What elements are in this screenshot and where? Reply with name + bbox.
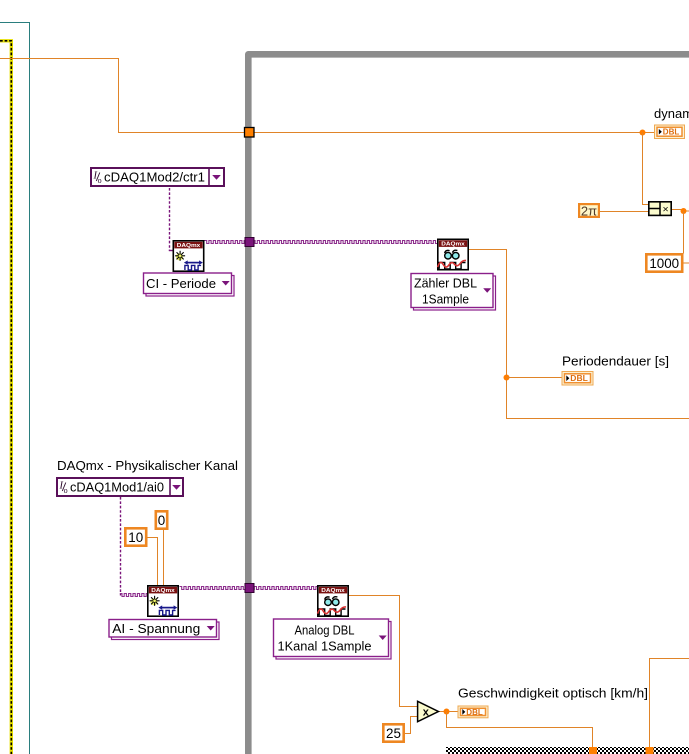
svg-text:cDAQ1Mod1/ai0: cDAQ1Mod1/ai0 — [70, 480, 164, 495]
tunnel (purple) on gray loop border, top — [245, 238, 254, 247]
wire: DAQmx channel name ai0 to AI-Spannung VI (dashed) — [120, 497, 148, 597]
VI icon: DAQmx Read Analog DBL 1Kanal 1Sample — [318, 586, 349, 616]
wire: branch down to 1000 constant corner — [683, 211, 685, 254]
junction node at Periodendauer branch — [504, 375, 510, 381]
VI icon: DAQmx Create Channel CI-Periode — [173, 241, 203, 271]
junction node at dynamisch indicator branch — [640, 130, 646, 136]
svg-text:×: × — [663, 203, 669, 215]
wire: constant 10 to AI-Spannung VI — [148, 538, 158, 586]
wire: 25 constant to multiply input — [405, 717, 417, 734]
constant: 0 — [156, 511, 167, 528]
wire: from right edge down to bottom structure tunnel — [650, 659, 689, 748]
wire: branch down to bottom structure tunnel — [447, 712, 593, 748]
constant: DAQmx channel cDAQ1Mod1/ai0 — [57, 478, 183, 496]
svg-text:cDAQ1Mod2/ctr1: cDAQ1Mod2/ctr1 — [104, 170, 205, 185]
svg-text:25: 25 — [386, 726, 401, 741]
function: multiply (compact grown) — [649, 202, 671, 216]
svg-text:10: 10 — [128, 530, 143, 545]
main loop border (gray) — [248, 54, 689, 754]
VI icon: DAQmx Read Zaehler DBL 1Sample — [438, 239, 469, 269]
wire: DAQmx channel name ctr1 to CI-Periode VI (dashed) — [169, 188, 173, 251]
junction node at multiply output — [681, 208, 687, 214]
svg-text:1Sample: 1Sample — [422, 291, 469, 306]
indicator terminal: dynamisch (DBL) — [655, 125, 685, 139]
svg-text:DBL: DBL — [570, 374, 588, 383]
function: multiply (triangle) — [418, 701, 439, 721]
wire: Zaehler DBL read output — [468, 250, 689, 419]
sequence structure border (yellow/black dashed) — [0, 41, 11, 754]
tunnel (orange) on gray loop border — [245, 128, 255, 138]
bottom structure border (checkered) — [446, 747, 689, 754]
svg-text:AI - Spannung: AI - Spannung — [112, 621, 200, 636]
wire: 2pi constant to multiply input — [600, 211, 650, 213]
wire: DAQmx task CI-Periode to Zaehler read (zigzag) — [205, 241, 438, 244]
svg-text:DBL: DBL — [466, 708, 483, 717]
label: Periodendauer [s] — [562, 354, 669, 369]
svg-text:DAQmx: DAQmx — [151, 588, 176, 594]
svg-text:0: 0 — [158, 513, 165, 528]
VI icon: DAQmx Create Channel AI-Spannung — [148, 586, 178, 616]
ring constant: Analog DBL 1Kanal 1Sample — [274, 619, 392, 659]
label: dynamisch (clipped at right edge) — [654, 106, 689, 121]
svg-text:2π: 2π — [581, 203, 597, 218]
junction node at Geschwindigkeit branch — [444, 709, 450, 715]
label: Geschwindigkeit optisch [km/h] — [458, 686, 648, 701]
wire: dynamisch signal from left edge through tunnel to indicator — [0, 59, 654, 133]
wire: branch to Periodendauer indicator — [507, 377, 563, 379]
wire: multiply x output to Geschwindigkeit indicator — [439, 711, 459, 713]
ring constant: CI - Periode — [144, 273, 235, 296]
svg-text:Periodendauer [s]: Periodendauer [s] — [562, 354, 669, 369]
tunnel (purple) on gray loop border, bottom — [245, 584, 254, 593]
svg-text:DBL: DBL — [663, 128, 680, 137]
svg-text:DAQmx: DAQmx — [321, 588, 346, 594]
svg-text:CI - Periode: CI - Periode — [146, 276, 216, 291]
svg-text:Zähler DBL: Zähler DBL — [414, 275, 477, 290]
while loop border (teal) — [0, 23, 30, 754]
wire: multiply output to right edge — [672, 210, 689, 212]
svg-text:1000: 1000 — [649, 256, 679, 271]
constant: 25 — [383, 724, 403, 741]
constant: 10 — [125, 528, 146, 545]
svg-text:DAQmx: DAQmx — [441, 242, 466, 248]
svg-text:DAQmx - Physikalischer Kanal: DAQmx - Physikalischer Kanal — [57, 458, 238, 473]
svg-text:Geschwindigkeit optisch [km/h]: Geschwindigkeit optisch [km/h] — [458, 686, 648, 701]
label: DAQmx - Physikalischer Kanal — [57, 458, 238, 473]
wire: constant 0 to AI-Spannung VI — [163, 530, 165, 585]
constant: DAQmx channel cDAQ1Mod2/ctr1 — [91, 168, 224, 186]
tunnel (orange) on bottom structure, right — [646, 747, 654, 754]
tunnel (orange) on bottom structure, left — [589, 747, 597, 754]
wire: branch down to multiply input — [643, 133, 650, 205]
constant: 2π — [579, 203, 599, 218]
ring constant: Zaehler DBL 1Sample — [411, 274, 496, 311]
svg-text:x: x — [423, 707, 430, 719]
constant: 1000 — [646, 254, 682, 271]
ring constant: AI - Spannung — [109, 620, 219, 640]
wire: DAQmx task AI-Spannung to Analog read (zigzag) — [180, 587, 318, 590]
wire: Analog DBL read output down to multiply — [348, 596, 417, 707]
wire: 1000 constant output stub to right edge — [684, 262, 689, 264]
indicator terminal: Geschwindigkeit optisch (DBL) — [458, 706, 488, 718]
svg-text:DAQmx: DAQmx — [177, 243, 202, 249]
svg-text:1Kanal 1Sample: 1Kanal 1Sample — [278, 639, 372, 654]
svg-text:dynamisch: dynamisch — [654, 106, 689, 121]
svg-text:Analog DBL: Analog DBL — [295, 623, 355, 638]
indicator terminal: Periodendauer [s] (DBL) — [562, 372, 593, 386]
